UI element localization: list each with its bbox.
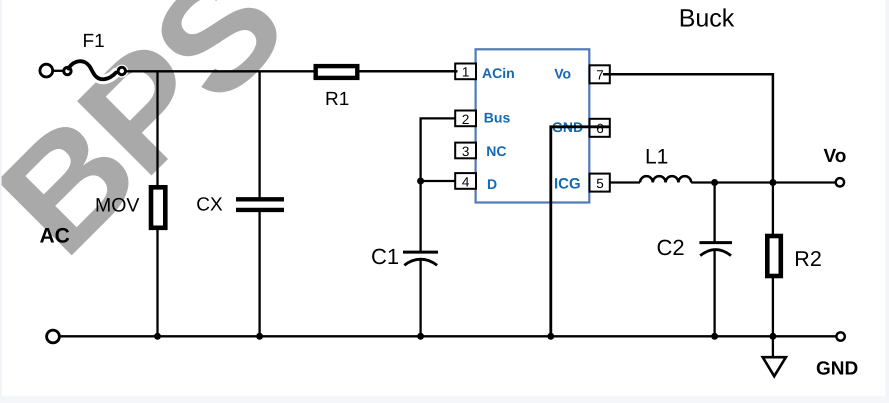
terminal AC bottom (47, 330, 60, 343)
pin 3 box (455, 143, 476, 159)
page edge strips (decorative) (0, 0, 2, 403)
node GND wire bottom (547, 333, 554, 340)
svg-text:C2: C2 (657, 235, 685, 260)
node R2 top (769, 179, 776, 186)
pin 2 box (455, 111, 476, 127)
svg-text:5: 5 (596, 176, 604, 191)
pin 7 box (590, 65, 610, 83)
wire pin 6 GND jog (551, 127, 610, 336)
svg-text:4: 4 (462, 174, 470, 189)
wire CX to bottom rail (258, 212, 260, 336)
capacitor CX (236, 197, 284, 201)
wire down to C1 (419, 181, 421, 251)
node pin2/pin4 junction (417, 178, 424, 185)
svg-text:L1: L1 (645, 145, 668, 168)
svg-text:C1: C1 (371, 244, 399, 269)
resistor R2 (767, 236, 781, 276)
wire MOV to bottom rail (156, 230, 158, 337)
svg-text:MOV: MOV (95, 194, 139, 216)
svg-text:1: 1 (462, 65, 470, 80)
node CX bottom (256, 333, 263, 340)
wire C1 to bottom rail (419, 260, 421, 337)
wire top rail (126, 70, 458, 72)
wire CX drop (258, 71, 260, 197)
node C1 bottom (417, 333, 424, 340)
wire pin 7 to output node (603, 74, 773, 182)
svg-text:7: 7 (596, 68, 604, 83)
node R2 bottom (769, 333, 776, 340)
wire R2 to bottom rail (772, 278, 774, 337)
svg-text:Vo: Vo (824, 146, 847, 167)
wire node to R2 (772, 183, 774, 235)
node MOV bottom (154, 333, 161, 340)
wire L1 to Vo terminal (691, 181, 835, 183)
node C2 bottom (711, 333, 718, 340)
wire C2 to bottom rail (713, 250, 715, 336)
capacitor C1 (403, 251, 438, 254)
terminal Vo (836, 178, 844, 186)
svg-text:Buck: Buck (679, 5, 735, 33)
svg-text:F1: F1 (83, 31, 105, 52)
svg-text:ICG: ICG (554, 176, 581, 193)
svg-text:Vo: Vo (554, 66, 571, 82)
wire MOV drop (156, 71, 158, 186)
svg-text:Bus: Bus (484, 110, 511, 126)
svg-text:AC: AC (40, 224, 70, 247)
wire node to C2 (713, 183, 715, 242)
capacitor C2 (699, 241, 732, 244)
svg-text:D: D (487, 176, 497, 192)
pin 5 box (590, 174, 610, 192)
terminal GND right (836, 332, 844, 340)
svg-text:NC: NC (486, 143, 506, 159)
resistor R1 (316, 66, 358, 78)
svg-text:CX: CX (196, 195, 223, 216)
ground (763, 357, 786, 376)
svg-text:R1: R1 (325, 89, 349, 110)
svg-text:2: 2 (462, 112, 470, 127)
wire R1 to pin 1 (360, 70, 458, 72)
wire (53, 70, 64, 72)
inductor L1 (640, 176, 691, 182)
node C2 top (711, 179, 718, 186)
wire pin 2 to C1 drop (421, 118, 456, 181)
wire pin 5 to L1 (610, 181, 640, 183)
terminal AC top (40, 64, 53, 77)
IC U1 body (476, 49, 590, 202)
varistor MOV (151, 187, 165, 228)
pin 1 box (455, 64, 476, 80)
fuse F1 (64, 67, 71, 74)
svg-text:3: 3 (462, 144, 470, 159)
wire ground stub (772, 336, 774, 357)
pin 6 box (590, 119, 610, 137)
svg-text:ACin: ACin (482, 65, 515, 81)
watermark BPS (0, 0, 314, 286)
svg-text:R2: R2 (794, 247, 821, 271)
wire bottom rail (60, 335, 837, 337)
fuse halo (69, 61, 117, 79)
svg-text:6: 6 (596, 121, 604, 136)
pin 4 box (455, 173, 476, 189)
wire pin 4 (421, 180, 456, 182)
svg-text:GND: GND (816, 358, 858, 379)
